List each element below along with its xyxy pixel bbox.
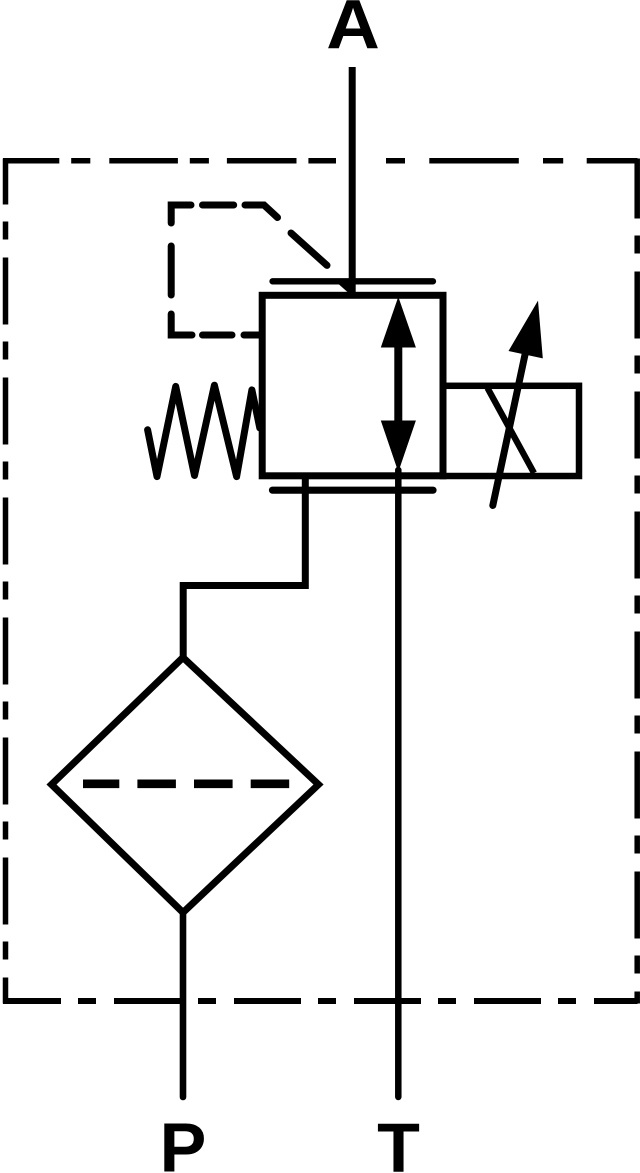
wire: P line: [180, 912, 187, 1097]
pilot dashed rectangle: [171, 205, 277, 335]
svg-text:T: T: [377, 1109, 420, 1173]
solenoid box: [443, 386, 579, 476]
svg-text:P: P: [160, 1109, 207, 1173]
spool arrowhead up: [381, 297, 416, 348]
enclosure border left (dash-dot): [3, 159, 9, 1004]
proportional arrow shaft: [493, 350, 526, 506]
wire: port A line: [349, 67, 356, 295]
wire: T line: [395, 470, 402, 1097]
svg-text:A: A: [326, 0, 380, 64]
enclosure border bottom (dash-dot): [3, 998, 638, 1004]
arrowhead of pilot line at valve top: [334, 280, 353, 297]
top port line: [273, 278, 434, 284]
filter dashed line: [83, 779, 289, 788]
bottom port line: [273, 487, 434, 494]
spool double arrow shaft: [394, 345, 402, 424]
solenoid diagonal stroke: [488, 388, 535, 473]
filter diamond: [52, 658, 319, 913]
valve box: [262, 295, 443, 476]
wire: valve to filter: [183, 477, 305, 658]
proportional arrowhead: [509, 301, 543, 359]
spring: [148, 385, 260, 476]
spool arrowhead down: [381, 421, 416, 473]
enclosure border right (dash-dot): [634, 159, 640, 1004]
pilot dashed diagonal: [291, 233, 327, 265]
enclosure border top (dash-dot): [3, 158, 638, 164]
